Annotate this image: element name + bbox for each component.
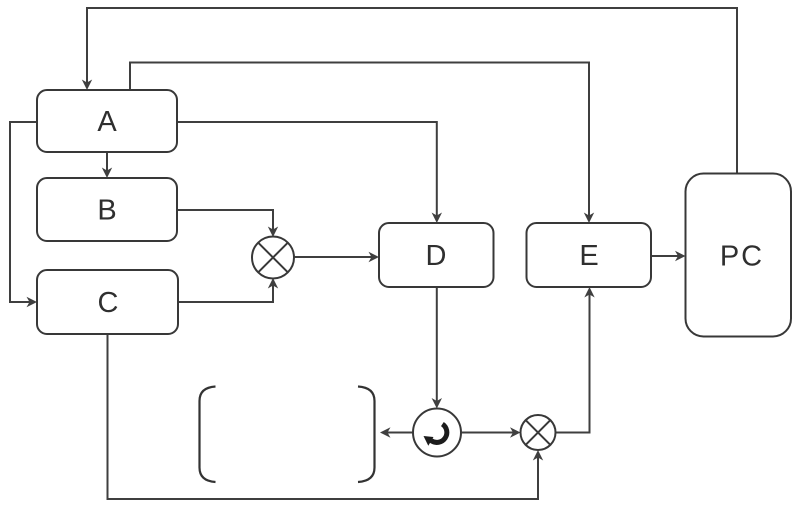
- wire C to multiplier M1: [178, 281, 273, 302]
- wire A to B: [106, 152, 108, 175]
- svg-text:D: D: [426, 240, 447, 272]
- wire PC to A (top feedback): [87, 8, 737, 174]
- box B: [37, 178, 177, 241]
- wire A to D: [177, 122, 437, 220]
- right bracket: [358, 387, 375, 483]
- arrowhead into B top: [102, 168, 112, 179]
- arrowhead into C left: [27, 297, 38, 307]
- wire D to circulator: [436, 287, 438, 406]
- left bracket: [200, 387, 216, 483]
- arrowhead into E bottom: [584, 287, 594, 298]
- arrowhead into A top: [82, 80, 92, 91]
- wire A to E (upper feedback): [130, 63, 589, 221]
- wire M2 to E: [556, 290, 590, 433]
- wire M1 to D: [294, 256, 376, 258]
- circulator (circle with curved arrow): [413, 409, 461, 457]
- arrowhead into D top: [432, 213, 442, 224]
- arrowhead into M1 top: [268, 227, 278, 238]
- wire C to M2 (bottom feedback): [108, 334, 539, 499]
- arrowhead into E top: [584, 213, 594, 224]
- box C: [37, 270, 178, 334]
- arrowhead into circulator top: [432, 398, 442, 409]
- wire E to PC: [651, 255, 683, 257]
- multiplier M1 (circle with X): [252, 237, 294, 279]
- multiplier M2 (circle with X): [521, 415, 556, 450]
- arrowhead into PC left: [675, 251, 686, 261]
- arrowhead into M2 bottom: [533, 450, 543, 461]
- arrowhead into bracket (left-pointing): [380, 427, 391, 437]
- svg-text:C: C: [98, 287, 119, 319]
- wire A to C (left loop): [10, 122, 37, 302]
- arrowhead into D left: [369, 252, 380, 262]
- svg-text:A: A: [97, 106, 117, 138]
- svg-text:B: B: [97, 195, 116, 227]
- svg-text:PC: PC: [720, 241, 764, 273]
- box D: [379, 223, 494, 287]
- wire B to multiplier M1: [177, 210, 273, 234]
- wire circulator to bracket: [383, 432, 413, 434]
- arrowhead into M2 left: [510, 427, 521, 437]
- svg-text:E: E: [579, 240, 598, 272]
- arrowhead into M1 bottom: [268, 278, 278, 289]
- box E: [527, 223, 652, 287]
- wire circulator to multiplier M2: [461, 432, 518, 434]
- box PC: [686, 174, 792, 337]
- box A: [37, 90, 177, 152]
